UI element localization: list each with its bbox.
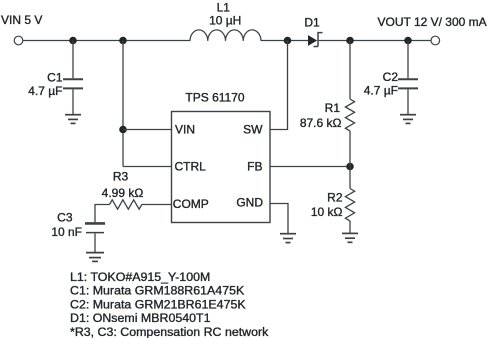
svg-text:C3: C3 [57, 211, 73, 225]
ground GND pin [280, 234, 296, 243]
svg-text:C2: C2 [383, 70, 399, 84]
node R1 tap [346, 37, 354, 45]
svg-text:87.6 kΩ: 87.6 kΩ [300, 116, 342, 130]
svg-text:10 kΩ: 10 kΩ [311, 205, 343, 219]
svg-text:*R3, C3: Compensation RC netwo: *R3, C3: Compensation RC network [70, 325, 269, 338]
svg-text:GND: GND [236, 195, 263, 209]
terminal VIN [14, 36, 23, 45]
capacitor C2 [398, 79, 418, 88]
diode D1 [308, 33, 323, 47]
wire R3 to C3 [95, 205, 110, 223]
wire rail to R1 [349, 41, 351, 100]
resistor R2 [345, 189, 354, 221]
svg-text:VIN 5 V: VIN 5 V [1, 13, 42, 27]
ground R2 [342, 233, 358, 242]
wire R1 to FB node [349, 131, 351, 167]
node C1 tap [69, 37, 77, 45]
op-amp U1 TPS61170 box [172, 112, 271, 223]
svg-text:D1: D1 [304, 16, 320, 30]
svg-text:10 nF: 10 nF [51, 225, 82, 239]
node FB junction [346, 163, 354, 171]
node VIN junction [119, 126, 127, 134]
wire rail to C1 [72, 41, 74, 79]
ground C1 [65, 115, 81, 124]
wire C3 to ground [94, 233, 96, 252]
wire FB pin [270, 166, 350, 168]
svg-text:R1: R1 [325, 101, 341, 115]
svg-text:SW: SW [243, 123, 263, 137]
svg-text:D1: ONsemi MBR0540T1: D1: ONsemi MBR0540T1 [70, 311, 211, 325]
wire FB node to R2 [349, 167, 351, 189]
resistor R1 [345, 99, 354, 131]
svg-text:C1: Murata GRM188R61A475K: C1: Murata GRM188R61A475K [70, 284, 245, 298]
svg-text:CTRL: CTRL [175, 160, 207, 174]
svg-text:4.7 µF: 4.7 µF [364, 84, 398, 98]
svg-text:C2: Murata GRM21BR61E475K: C2: Murata GRM21BR61E475K [70, 297, 246, 311]
wire R2 to ground [349, 221, 351, 233]
node SW tap [284, 37, 292, 45]
wire inductor to diode [261, 40, 308, 42]
svg-text:R2: R2 [327, 191, 343, 205]
wire rail to C2 [407, 41, 409, 79]
wire to CTRL pin [123, 166, 172, 168]
svg-text:L1: TOKO#A915_Y-100M: L1: TOKO#A915_Y-100M [70, 270, 210, 284]
svg-text:TPS 61170: TPS 61170 [185, 90, 244, 104]
capacitor C1 [63, 79, 83, 88]
svg-text:4.7 µF: 4.7 µF [28, 84, 62, 98]
wire COMP pin [142, 204, 172, 206]
svg-text:R3: R3 [113, 170, 129, 184]
ground C2 [400, 115, 416, 124]
wire to VIN pin [123, 129, 172, 131]
svg-text:COMP: COMP [173, 197, 209, 211]
node C2 tap [404, 37, 412, 45]
svg-text:10 µH: 10 µH [209, 13, 241, 27]
wire SW pin [270, 41, 288, 130]
wire rail down to CTRL branch [122, 41, 124, 167]
svg-text:VIN: VIN [175, 123, 195, 137]
capacitor C3 [85, 223, 105, 232]
inductor L1 [190, 30, 261, 41]
wire GND pin [270, 204, 288, 234]
wire C1 to ground [72, 89, 74, 114]
svg-text:L1: L1 [217, 0, 231, 14]
resistor R3 [110, 200, 142, 209]
wire C2 to ground [407, 89, 409, 114]
ground C3 [86, 253, 104, 262]
svg-text:4.99 kΩ: 4.99 kΩ [102, 186, 144, 200]
wire diode to terminal [319, 40, 431, 42]
terminal VOUT [431, 36, 440, 45]
node VIN branch tap [119, 37, 127, 45]
svg-text:VOUT 12 V/ 300 mA: VOUT 12 V/ 300 mA [378, 15, 487, 29]
wire top rail left [23, 40, 190, 42]
svg-text:C1: C1 [47, 71, 63, 85]
svg-text:FB: FB [247, 160, 262, 174]
